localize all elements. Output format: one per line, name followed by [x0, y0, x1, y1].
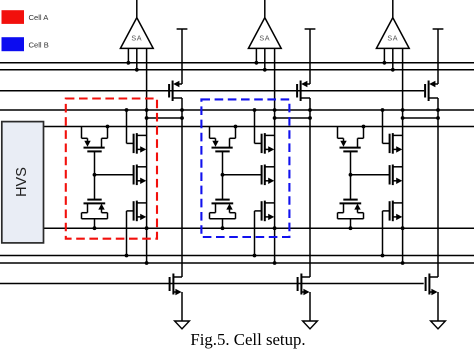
wire cell A rail-to-pass segment [147, 117, 182, 119]
wire Q3 drain chain down [436, 98, 440, 277]
legend red swatch for Cell A [2, 10, 25, 24]
cell B flash transistor M6 (top left) [210, 125, 238, 175]
wire Q1 drain chain down [180, 98, 184, 277]
wire SA3 left output to bus line 1 [383, 48, 387, 64]
bus line 2 [0, 69, 474, 71]
wire Q2 drain chain down [308, 98, 312, 277]
svg-text:SA: SA [387, 33, 398, 42]
cell A select transistor M5 [125, 201, 147, 258]
terminal stub T2 (T-bar) [305, 29, 316, 84]
bottom bus line 2 [0, 262, 474, 264]
cell A select transistor M4 [134, 165, 147, 186]
wire SA2 middle output to bus line 2 [263, 48, 267, 71]
cell A word line (middle) [95, 174, 134, 176]
terminal stub T3 (T-bar) [433, 29, 444, 84]
sense amp U2 input wire [264, 0, 266, 18]
op-amp U1 (SA triangle) [120, 18, 153, 49]
transistor Q3 (top pass gate) [425, 81, 438, 102]
wire SA1 middle output to bus line 2 [135, 48, 139, 71]
wire SA1 left output to bus line 1 [126, 48, 130, 64]
transistor Q1 (top pass gate) [169, 81, 182, 102]
ground symbol G3 [431, 321, 446, 329]
HVS block [2, 122, 44, 243]
cell B select transistor M9 [262, 165, 275, 186]
bus line 3 (pass-gate word line) [0, 90, 424, 92]
cell C flash transistor M11 (top left) [338, 125, 366, 175]
cell B flash transistor M7 (bottom left) [210, 175, 236, 230]
wire cell C rail-to-pass segment [403, 117, 438, 119]
wire SA3 middle output to bus line 2 [391, 48, 395, 71]
op-amp U3 (SA triangle) [376, 18, 409, 49]
cell C word line (middle) [351, 174, 390, 176]
transistor Q5 (bottom ground gate) [298, 274, 310, 322]
node pass column junction [180, 116, 184, 120]
cell A flash transistor M2 (bottom left) [82, 175, 108, 230]
cell C gate node [349, 173, 353, 177]
cell B gate node [221, 173, 225, 177]
sense amp U3 input wire [392, 0, 394, 18]
transistor Q2 (top pass gate) [297, 81, 310, 102]
ground symbol G1 [175, 321, 190, 329]
op-amp U2 (SA triangle) [248, 18, 281, 49]
cell A flash transistor M1 (top left) [82, 125, 110, 175]
node pass column junction [436, 116, 440, 120]
transistor Q6 (bottom ground gate) [426, 274, 438, 322]
cell C flash transistor M12 (bottom left) [338, 175, 364, 230]
cell C select transistor M13 [381, 108, 403, 154]
node pass column junction [308, 116, 312, 120]
svg-text:Fig.5. Cell setup.: Fig.5. Cell setup. [190, 330, 305, 349]
bus line 1 (top) [0, 62, 474, 64]
cell bottom rail from HVS [44, 227, 474, 229]
wire cell B right rail (SA output column) [273, 48, 277, 265]
svg-text:SA: SA [259, 33, 270, 42]
Cell B dashed outline (blue) [201, 99, 289, 237]
svg-text:Cell B: Cell B [29, 40, 49, 49]
wire cell B rail-to-pass segment [275, 117, 310, 119]
cell C select transistor M15 [381, 201, 403, 258]
wire cell C right rail (SA output column) [401, 48, 405, 265]
cell B select transistor M10 [253, 201, 275, 258]
ground symbol G2 [303, 321, 318, 329]
cell A select transistor M3 [125, 108, 147, 154]
svg-text:SA: SA [131, 33, 142, 42]
transistor Q4 (bottom ground gate) [170, 274, 182, 322]
bus line 4 [0, 109, 474, 111]
cell B word line (middle) [223, 174, 262, 176]
svg-text:HVS: HVS [14, 167, 30, 197]
wire SA2 left output to bus line 1 [255, 48, 259, 64]
Cell A dashed outline (red) [66, 99, 157, 239]
cell C select transistor M14 [390, 165, 403, 186]
bottom gate line (ground transistors) [0, 283, 424, 285]
terminal stub T1 (T-bar) [177, 29, 188, 84]
legend blue swatch for Cell B [2, 37, 25, 51]
svg-text:Cell A: Cell A [29, 13, 50, 22]
wire cell A right rail (SA output column) [145, 48, 149, 265]
bottom bus line 1 [0, 255, 474, 257]
cell A gate node [93, 173, 97, 177]
cell B select transistor M8 [253, 108, 275, 154]
cell top rail from HVS [44, 126, 474, 128]
sense amp U1 input wire [136, 0, 138, 18]
